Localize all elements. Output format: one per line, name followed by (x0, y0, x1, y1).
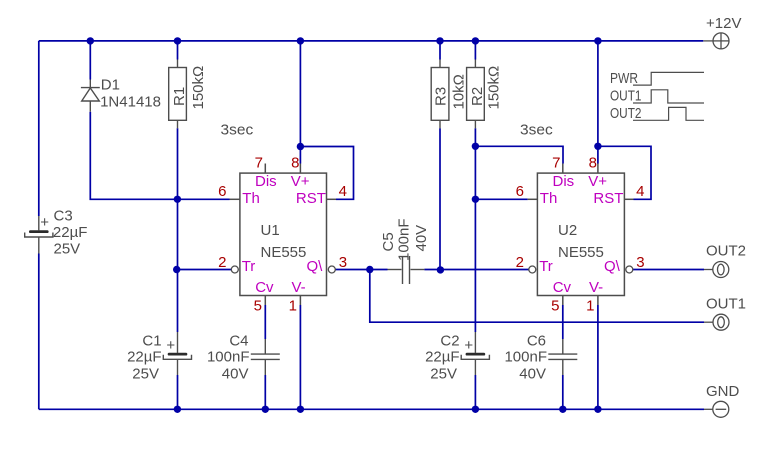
svg-text:GND: GND (706, 383, 740, 400)
svg-text:3sec: 3sec (221, 122, 254, 139)
svg-text:150kΩ: 150kΩ (190, 66, 207, 110)
svg-text:40V: 40V (222, 366, 249, 383)
svg-text:1: 1 (289, 298, 297, 315)
svg-text:Tr: Tr (539, 258, 553, 275)
svg-text:PWR: PWR (610, 70, 638, 87)
svg-text:NE555: NE555 (261, 244, 307, 261)
svg-text:U1: U1 (261, 222, 280, 239)
svg-text:2: 2 (516, 254, 524, 271)
svg-text:2: 2 (218, 254, 226, 271)
svg-text:6: 6 (218, 183, 226, 200)
svg-text:100nF: 100nF (207, 349, 250, 366)
svg-text:C6: C6 (527, 333, 546, 350)
svg-text:+: + (166, 337, 175, 354)
svg-text:C5: C5 (380, 232, 397, 251)
svg-text:3sec: 3sec (520, 122, 553, 139)
svg-text:NE555: NE555 (558, 244, 604, 261)
svg-text:Tr: Tr (242, 258, 256, 275)
svg-text:R2: R2 (469, 87, 486, 106)
svg-text:C4: C4 (229, 333, 248, 350)
svg-text:OUT1: OUT1 (610, 88, 642, 105)
svg-text:25V: 25V (54, 241, 81, 258)
svg-text:4: 4 (636, 183, 644, 200)
svg-text:+12V: +12V (706, 15, 741, 32)
svg-text:40V: 40V (413, 225, 430, 252)
svg-text:25V: 25V (132, 366, 159, 383)
svg-text:5: 5 (254, 298, 262, 315)
svg-text:22µF: 22µF (53, 224, 88, 241)
svg-text:6: 6 (516, 183, 524, 200)
svg-text:40V: 40V (519, 366, 546, 383)
svg-text:25V: 25V (430, 366, 457, 383)
svg-text:5: 5 (551, 298, 559, 315)
svg-text:1: 1 (586, 298, 594, 315)
svg-text:3: 3 (636, 254, 644, 271)
svg-text:8: 8 (291, 155, 299, 172)
svg-text:RST: RST (593, 190, 623, 207)
svg-text:1N41418: 1N41418 (100, 94, 161, 111)
svg-text:22µF: 22µF (127, 349, 162, 366)
svg-text:Q\: Q\ (306, 258, 323, 275)
svg-text:C3: C3 (54, 208, 73, 225)
svg-text:Th: Th (242, 190, 260, 207)
svg-text:V+: V+ (291, 173, 310, 190)
svg-text:Dis: Dis (553, 173, 575, 190)
svg-text:C2: C2 (440, 333, 459, 350)
svg-text:10kΩ: 10kΩ (451, 74, 468, 109)
svg-text:Cv: Cv (255, 279, 274, 296)
svg-text:100nF: 100nF (504, 349, 547, 366)
svg-text:7: 7 (255, 155, 263, 172)
svg-text:7: 7 (552, 155, 560, 172)
svg-text:Cv: Cv (553, 279, 572, 296)
svg-text:RST: RST (296, 190, 326, 207)
svg-text:V-: V- (589, 279, 603, 296)
svg-text:3: 3 (339, 254, 347, 271)
svg-text:Th: Th (540, 190, 558, 207)
svg-text:V+: V+ (588, 173, 607, 190)
svg-text:Q\: Q\ (604, 258, 621, 275)
svg-text:+: + (464, 337, 473, 354)
svg-text:OUT1: OUT1 (706, 296, 746, 313)
svg-text:22µF: 22µF (425, 349, 460, 366)
svg-text:+: + (40, 214, 49, 231)
svg-text:8: 8 (589, 155, 597, 172)
svg-text:150kΩ: 150kΩ (486, 66, 503, 110)
svg-text:OUT2: OUT2 (706, 242, 746, 259)
svg-text:R1: R1 (171, 87, 188, 106)
svg-text:R3: R3 (433, 87, 450, 106)
svg-text:C1: C1 (142, 333, 161, 350)
svg-text:4: 4 (339, 183, 347, 200)
svg-text:Dis: Dis (255, 173, 277, 190)
svg-text:OUT2: OUT2 (610, 105, 642, 122)
svg-text:D1: D1 (101, 77, 120, 94)
svg-text:100nF: 100nF (396, 218, 413, 261)
svg-text:U2: U2 (558, 222, 577, 239)
svg-text:V-: V- (292, 279, 306, 296)
